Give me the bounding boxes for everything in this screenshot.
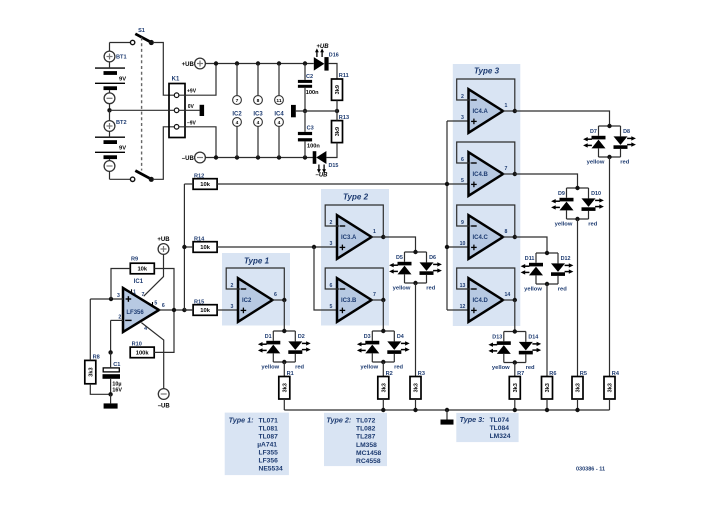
pin 10 (non-inverting) IC4.C: [460, 241, 466, 247]
svg-text:2: 2: [231, 283, 234, 289]
wire IC1 output: [159, 309, 193, 311]
node bottom D1/D2: [282, 360, 286, 364]
node top D5/D6: [413, 250, 417, 254]
resistor R8: [85, 355, 100, 384]
wire D7/D8 to R4: [609, 157, 611, 377]
svg-text:BT2: BT2: [116, 120, 127, 126]
node IC1 output feedback: [172, 308, 176, 312]
svg-text:TL071: TL071: [259, 418, 279, 425]
switch S1 upper pole: [110, 34, 154, 45]
svg-text:D10: D10: [591, 191, 601, 197]
node top D9/D10: [575, 186, 579, 190]
Type 1 list box: [225, 413, 289, 476]
svg-text:+UB: +UB: [182, 62, 195, 68]
svg-text:IC1: IC1: [134, 279, 144, 285]
wire LED-pair frame D9/D10: [567, 188, 589, 219]
svg-text:Type 1:: Type 1:: [229, 416, 255, 425]
label 9V BT2: [119, 145, 126, 151]
svg-text:R13: R13: [339, 115, 349, 121]
junction +UB rail: [214, 61, 307, 65]
wire C2 bottom: [304, 88, 306, 111]
LED D7 (yellow): [583, 129, 605, 148]
svg-text:–UB: –UB: [182, 156, 195, 162]
wire R13 top: [336, 111, 338, 121]
svg-text:3: 3: [231, 304, 234, 310]
svg-text:6: 6: [162, 303, 165, 309]
ground (bottom rail): [441, 420, 454, 425]
resistor R11: [332, 73, 349, 101]
node top D3/D4: [381, 329, 385, 333]
op-amp IC2: [238, 278, 273, 322]
label Type 1: [244, 256, 270, 265]
svg-text:red: red: [620, 160, 629, 166]
svg-text:R9: R9: [131, 256, 138, 262]
svg-text:MC1458: MC1458: [356, 450, 382, 457]
op-amp IC3.A: [337, 215, 372, 259]
LED D11 (yellow): [521, 256, 543, 275]
svg-text:R10: R10: [132, 341, 142, 347]
svg-text:10k: 10k: [137, 267, 147, 273]
K1 pin -9V: [174, 125, 179, 130]
0V mid test bar: [291, 105, 296, 117]
battery BT2 plus terminal: [104, 120, 126, 131]
wire R8 bottom: [90, 384, 110, 395]
wire bus IC1 output: [183, 184, 185, 310]
pin 3 (non-inverting) IC4.A: [461, 115, 464, 121]
svg-text:Type 2:: Type 2:: [326, 416, 352, 425]
wire R2 stub: [382, 399, 384, 410]
wire D3/D4 to R2: [382, 362, 384, 377]
svg-text:7: 7: [505, 166, 508, 172]
IC3 supply pin 4: [254, 118, 263, 127]
drawing number: [576, 467, 605, 473]
wire S1 upper to K1 +9V: [154, 43, 174, 96]
wire R9 right: [154, 269, 174, 311]
node output IC4.B: [513, 172, 517, 176]
op-amp IC4.C: [469, 215, 504, 259]
svg-text:IC4.B: IC4.B: [473, 172, 489, 178]
wire R5 stub: [577, 399, 579, 410]
svg-text:R11: R11: [339, 73, 349, 79]
wire feedback IC4.C: [457, 205, 515, 237]
LED D6 (red): [420, 255, 442, 275]
pin 6 (inverting) IC3.B: [330, 283, 333, 289]
wire output IC4.C: [503, 236, 515, 238]
svg-text:LM358: LM358: [356, 442, 377, 449]
wire R14 to IC3.A +input: [217, 246, 337, 248]
pin 14 (output) IC4.D: [505, 292, 511, 298]
pin 5 (non-inverting) IC4.B: [461, 178, 464, 184]
label red D6: [426, 286, 435, 292]
svg-text:K1: K1: [172, 77, 180, 83]
svg-text:1: 1: [505, 103, 508, 109]
label 9V BT1: [119, 76, 126, 82]
svg-text:10k: 10k: [200, 245, 210, 251]
pin 5 tick IC1: [153, 301, 158, 307]
wire BT1 minus to 0V node: [109, 104, 111, 111]
wire K1 +9V to +UB rail: [179, 64, 216, 96]
svg-text:TL287: TL287: [356, 434, 376, 441]
svg-text:0V: 0V: [188, 104, 195, 110]
svg-text:1: 1: [133, 289, 136, 295]
svg-text:D8: D8: [623, 129, 630, 135]
op-amp IC1: [123, 279, 159, 332]
svg-text:3k3: 3k3: [414, 383, 420, 392]
battery BT2 minus terminal: [104, 161, 115, 172]
op-amp IC4.B: [469, 152, 504, 196]
wire IC4.D output down: [514, 300, 516, 332]
wire IC1 pin 4 to -UB: [141, 323, 163, 389]
svg-text:S1: S1: [138, 28, 145, 34]
wire LED-pair frame D5/D6: [405, 252, 427, 283]
svg-text:2: 2: [330, 220, 333, 226]
svg-text:yellow: yellow: [492, 365, 510, 371]
pin 7 (output) IC3.B: [373, 292, 376, 298]
wire bottom rail: [284, 409, 609, 411]
svg-text:D16: D16: [329, 53, 339, 59]
LED D14 (red): [519, 335, 541, 355]
wire D13/D14 to R7: [514, 363, 516, 377]
capacitor C1: [103, 362, 123, 394]
svg-text:LM324: LM324: [490, 433, 511, 440]
svg-text:3k3: 3k3: [513, 383, 519, 392]
op-amp IC4.D: [469, 278, 504, 322]
battery BT1 plus terminal: [104, 51, 126, 62]
Type 1 group box: [222, 253, 290, 326]
wire IC2 output down: [283, 300, 285, 331]
resistor R15: [193, 299, 217, 315]
pin 3 label IC1: [117, 293, 120, 299]
svg-text:4: 4: [236, 120, 239, 126]
Type 2 device list: [326, 416, 381, 465]
node top D11/D12: [545, 251, 549, 255]
label -UB at D15: [315, 173, 328, 179]
svg-text:yellow: yellow: [393, 286, 411, 292]
label yellow D9: [555, 222, 573, 228]
label yellow D3: [360, 365, 378, 371]
svg-text:16V: 16V: [112, 388, 122, 394]
svg-text:D1: D1: [265, 334, 272, 340]
node IC3 + bus: [312, 245, 316, 249]
svg-text:9V: 9V: [119, 145, 126, 151]
pin 2 (inverting) IC4.A: [461, 94, 464, 100]
pin 6 (inverting) IC4.B: [461, 157, 464, 163]
svg-text:+UB: +UB: [316, 44, 329, 50]
wire IC4 supply pins: [278, 64, 280, 158]
LED D10 (red): [582, 191, 604, 211]
wire BT1 plus to S1: [109, 43, 111, 52]
svg-text:R3: R3: [418, 371, 425, 377]
svg-text:3k3: 3k3: [381, 383, 387, 392]
svg-text:R8: R8: [93, 355, 100, 361]
wire R15 to IC2 +input: [217, 309, 238, 311]
node bus R14: [182, 245, 186, 249]
resistor R7: [509, 371, 524, 399]
wire S1 lower to K1 -9V: [154, 127, 174, 180]
pin 13 (inverting) IC4.D: [460, 283, 466, 289]
svg-text:5: 5: [461, 178, 464, 184]
svg-text:10µ: 10µ: [112, 381, 121, 387]
svg-text:3k3: 3k3: [545, 383, 551, 392]
terminal +UB: [182, 58, 206, 69]
pin 6 (output) IC2: [274, 292, 277, 298]
label yellow D13: [492, 365, 510, 371]
wire R9 left: [111, 269, 130, 300]
wire IC1 +input: [90, 298, 123, 300]
svg-text:TL084: TL084: [490, 425, 510, 432]
svg-text:IC3.B: IC3.B: [341, 298, 357, 304]
ground (IC1): [104, 403, 118, 408]
K1 pin +9V: [174, 93, 179, 98]
LED D5 (yellow): [389, 255, 411, 274]
wire IC4.B +input: [447, 183, 469, 185]
svg-text:yellow: yellow: [524, 287, 542, 293]
wire mid rail: [296, 110, 337, 112]
svg-text:D11: D11: [525, 256, 535, 262]
pin 6 label IC1: [162, 303, 165, 309]
wire IC4.C output to D11/D12: [515, 237, 547, 253]
Type 3 group box: [453, 64, 521, 326]
wire K1 0V to test bar: [179, 109, 200, 111]
LED D3 (yellow): [357, 334, 379, 353]
svg-text:3k3: 3k3: [576, 383, 582, 392]
svg-text:IC3: IC3: [253, 111, 263, 117]
pin 8 (output) IC4.C: [505, 229, 508, 235]
node C1/R8 ground: [108, 392, 112, 396]
wire feedback IC3.B: [325, 268, 383, 300]
wire output IC4.A: [503, 110, 515, 112]
svg-text:LF356: LF356: [126, 310, 144, 316]
svg-text:11: 11: [276, 98, 281, 104]
svg-text:LF356: LF356: [259, 458, 279, 465]
wire IC4.C +input: [447, 246, 469, 248]
LED D15: [313, 151, 339, 173]
wire IC4.A +input: [447, 120, 469, 122]
svg-text:TL081: TL081: [259, 426, 279, 433]
svg-text:µA741: µA741: [257, 442, 277, 449]
wire 0V node to BT2: [109, 110, 111, 120]
LED D9 (yellow): [551, 191, 573, 210]
node output IC3.B: [381, 298, 385, 302]
svg-text:D7: D7: [590, 129, 597, 135]
wire D5/D6 to R3: [415, 283, 417, 377]
wire LED-pair frame D7/D8: [599, 126, 621, 157]
wire +UB rail: [205, 63, 313, 65]
wire +UB to IC1 pin 7: [144, 254, 164, 296]
switch S1 linkage (dashed): [141, 38, 143, 171]
wire feedback IC2: [226, 268, 284, 300]
wire R13 to D15: [326, 143, 337, 158]
battery BT2 cells: [95, 131, 125, 160]
svg-text:–UB: –UB: [158, 404, 171, 410]
wire IC4 + input bus: [446, 121, 448, 310]
node top D1/D2: [282, 329, 286, 333]
svg-text:10k: 10k: [200, 182, 210, 188]
node R10 left: [108, 350, 112, 354]
svg-text:IC2: IC2: [232, 111, 242, 117]
wire feedback IC4.D: [457, 268, 515, 300]
svg-text:3k3: 3k3: [282, 383, 288, 392]
wire IC3.A output to D5/D6: [383, 237, 415, 252]
svg-text:3k9: 3k9: [335, 85, 341, 94]
node bottom D7/D8: [607, 155, 611, 159]
wire R1 stub: [283, 399, 285, 410]
svg-text:3k9: 3k9: [335, 127, 341, 136]
wire output IC4.B: [503, 173, 515, 175]
svg-text:D14: D14: [528, 335, 538, 341]
LED D12 (red): [551, 256, 573, 276]
svg-text:2: 2: [118, 315, 121, 321]
svg-text:RC4558: RC4558: [356, 458, 381, 465]
svg-text:IC4.D: IC4.D: [473, 298, 489, 304]
pin 12 (non-inverting) IC4.D: [460, 304, 466, 310]
svg-text:3k3: 3k3: [88, 367, 94, 376]
svg-text:12: 12: [460, 304, 466, 310]
wire IC3 supply pins: [257, 64, 259, 158]
svg-text:100n: 100n: [307, 143, 320, 149]
svg-text:R15: R15: [194, 299, 204, 305]
svg-text:6: 6: [461, 157, 464, 163]
node IC1 +input: [109, 297, 113, 301]
wire ground stem: [446, 410, 448, 420]
label red D4: [394, 365, 403, 371]
svg-text:R7: R7: [517, 371, 524, 377]
svg-text:–9V: –9V: [187, 121, 197, 127]
IC4 supply pin 4: [275, 118, 284, 127]
svg-text:Type 3:: Type 3:: [460, 415, 486, 424]
svg-text:IC2: IC2: [242, 298, 252, 304]
LED D1 (yellow): [258, 334, 280, 353]
pin 3 (non-inverting) IC3.A: [330, 241, 333, 247]
svg-text:R5: R5: [580, 371, 587, 377]
svg-text:TL074: TL074: [490, 417, 510, 424]
wire R14 left: [184, 246, 193, 248]
wire IC4.A output to D7/D8: [515, 111, 610, 126]
svg-text:2: 2: [461, 94, 464, 100]
label yellow D5: [393, 286, 411, 292]
svg-text:Type 3: Type 3: [474, 66, 500, 75]
label yellow D11: [524, 287, 542, 293]
label yellow D7: [587, 160, 605, 166]
wire LED-pair frame D13/D14: [504, 332, 526, 363]
wire R10 right: [154, 310, 174, 352]
wire R8 top: [89, 299, 91, 360]
wire R15 left: [184, 309, 193, 311]
wire bus IC3.B +input: [314, 247, 337, 310]
wire R3 stub: [415, 399, 417, 410]
svg-text:red: red: [588, 222, 597, 228]
svg-text:C2: C2: [306, 74, 313, 80]
svg-text:D5: D5: [396, 255, 403, 261]
label red D8: [620, 160, 629, 166]
wire R4 stub: [609, 399, 611, 410]
label IC2 (supply): [232, 111, 242, 117]
wire output IC2: [273, 299, 285, 301]
svg-text:6: 6: [330, 283, 333, 289]
capacitor C2: [298, 74, 319, 96]
wire -UB rail: [205, 157, 313, 159]
LED D2 (red): [288, 334, 310, 354]
wire C2 top: [304, 64, 306, 80]
pin 2 label IC1: [118, 315, 121, 321]
wire R12 to IC4 +inputs: [217, 183, 447, 185]
pin 4 label IC1: [144, 326, 147, 332]
node IC4 bus C: [445, 245, 449, 249]
battery BT1 cells: [95, 62, 125, 93]
pin 7 (output) IC4.B: [505, 166, 508, 172]
resistor R5: [572, 371, 587, 399]
switch S1 lower pole: [130, 171, 153, 182]
node output IC4.D: [513, 298, 517, 302]
svg-text:+UB: +UB: [157, 237, 170, 243]
capacitor C3: [298, 126, 320, 150]
LED D16: [314, 48, 339, 70]
svg-text:TL072: TL072: [356, 418, 376, 425]
Type 1 device list: [229, 416, 283, 473]
Type 2 group box: [321, 189, 389, 326]
resistor R2: [378, 371, 393, 399]
op-amp IC4.A: [469, 89, 504, 133]
label -9V: [187, 121, 197, 127]
wire IC3.B output down: [382, 300, 384, 331]
wire C1 top: [110, 352, 112, 368]
terminal +UB (IC1): [157, 237, 170, 254]
svg-text:IC4.A: IC4.A: [473, 109, 489, 115]
svg-text:D4: D4: [397, 334, 404, 340]
junction -UB rail: [214, 155, 307, 159]
wire C1 bottom: [110, 379, 112, 395]
svg-text:D15: D15: [329, 163, 339, 169]
svg-text:8: 8: [505, 229, 508, 235]
wire LED-pair frame D3/D4: [372, 331, 394, 362]
wire R11 to mid rail: [336, 100, 338, 111]
IC4 supply pin 11: [275, 96, 284, 105]
svg-text:030386 - 11: 030386 - 11: [576, 467, 605, 473]
label red D12: [558, 287, 567, 293]
svg-text:red: red: [426, 286, 435, 292]
wire BT2 minus down: [110, 171, 131, 179]
svg-text:10: 10: [460, 241, 466, 247]
wire LED-pair frame D1/D2: [273, 331, 295, 362]
pin 1 (output) IC3.A: [373, 229, 376, 235]
svg-text:IC4.C: IC4.C: [473, 235, 489, 241]
svg-text:8: 8: [257, 98, 260, 104]
svg-text:red: red: [558, 287, 567, 293]
pin 2 (inverting) IC3.A: [330, 220, 333, 226]
svg-text:7: 7: [142, 292, 145, 298]
label +UB at D16: [316, 44, 329, 50]
label IC3 (supply): [253, 111, 263, 117]
svg-text:red: red: [394, 365, 403, 371]
wire K1 -9V to -UB rail: [179, 127, 216, 158]
battery BT1 minus terminal: [104, 93, 115, 104]
pin 9 (inverting) IC4.C: [461, 220, 464, 226]
wire D11/D12 to R6: [546, 284, 548, 377]
resistor R10: [130, 341, 154, 357]
wire R12 left: [184, 183, 193, 185]
pin 1 (output) IC4.A: [505, 103, 508, 109]
node IC4 bus R12: [445, 182, 449, 186]
svg-text:7: 7: [236, 98, 239, 104]
wire D1/D2 to R1: [283, 362, 285, 377]
junction bottom rail: [381, 408, 580, 412]
LED D4 (red): [387, 334, 409, 354]
svg-text:13: 13: [460, 283, 466, 289]
wire IC1 -input: [111, 320, 123, 352]
label 0V: [188, 104, 195, 110]
label Type 2: [343, 192, 369, 201]
svg-text:5: 5: [330, 304, 333, 310]
